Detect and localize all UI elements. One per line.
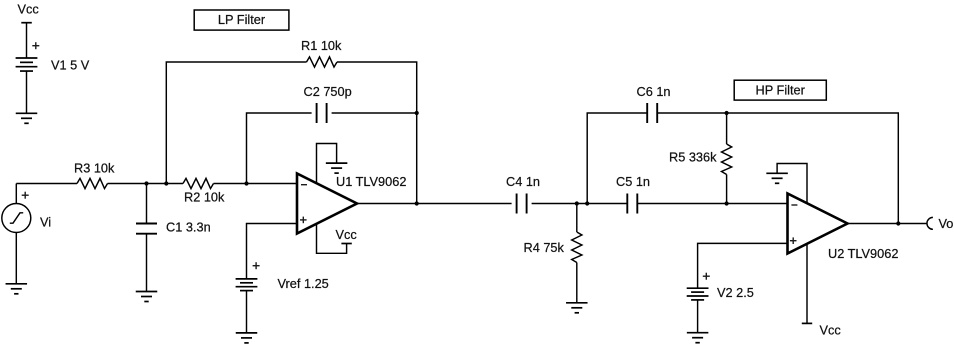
wire output node to C4 <box>417 203 512 205</box>
wire V1 to ground <box>26 71 28 113</box>
ground U2 V- pin <box>766 172 788 174</box>
svg-text:U2 TLV9062: U2 TLV9062 <box>828 246 898 261</box>
Vo terminal <box>927 217 933 229</box>
wire C1 to ground <box>146 234 148 292</box>
battery V1 plus sign <box>32 45 39 47</box>
wire R4 to ground <box>576 263 578 303</box>
wire U2 output <box>848 223 899 225</box>
svg-text:Vcc: Vcc <box>336 227 358 242</box>
svg-text:R5 336k: R5 336k <box>669 150 717 165</box>
svg-text:Vi: Vi <box>40 215 51 230</box>
wire riser to R1 <box>166 62 306 184</box>
wire R5 node to U2 inverting input <box>727 203 788 205</box>
capacitor C2 <box>316 103 318 123</box>
svg-text:C6 1n: C6 1n <box>637 84 671 99</box>
wire U1 V+ pin to Vcc <box>317 224 347 254</box>
node feedback junction <box>164 181 168 185</box>
node R4 junction <box>575 201 579 205</box>
wire node to R4 <box>576 204 578 233</box>
resistor R5 <box>722 144 732 175</box>
wire node to C2 <box>247 113 312 184</box>
Vi plus sign <box>22 194 29 196</box>
wire Vi to node A <box>15 184 17 204</box>
wire node to R5 <box>726 113 728 144</box>
svg-text:C4 1n: C4 1n <box>506 174 540 189</box>
LP Filter box <box>194 10 289 30</box>
node R5 bottom junction <box>725 201 729 205</box>
op-amp U2 <box>788 194 848 254</box>
wire U1 output <box>357 203 417 205</box>
battery Vref <box>236 278 258 280</box>
Vcc power terminal U1 <box>341 243 351 245</box>
svg-text:R4 75k: R4 75k <box>524 240 565 255</box>
resistor R4 <box>572 232 582 263</box>
wire R2 to U1 inverting input <box>214 183 298 185</box>
wire output to Vo terminal <box>898 223 927 225</box>
wire Vref to ground <box>246 291 248 333</box>
node R5 top junction <box>725 111 729 115</box>
wire riser to C6 <box>587 113 647 204</box>
node C2 junction <box>244 181 248 185</box>
ground Vi <box>6 283 28 285</box>
wire Vcc to V1 <box>26 23 28 58</box>
svg-text:R2 10k: R2 10k <box>184 190 225 205</box>
capacitor C4 <box>516 194 518 214</box>
svg-text:V2 2.5: V2 2.5 <box>717 285 754 300</box>
wire U2 V+ pin to Vcc <box>806 244 808 324</box>
wire node to C5 <box>587 203 627 205</box>
node U2 output junction <box>896 221 900 225</box>
capacitor C6 <box>646 103 648 123</box>
wire node to C1 <box>146 184 148 224</box>
ground U1 V- pin <box>326 162 348 164</box>
ground V2 <box>687 332 709 334</box>
wire U2 noninverting input to V2 <box>698 243 788 288</box>
svg-text:Vref 1.25: Vref 1.25 <box>278 276 329 291</box>
op-amp U1 <box>297 174 357 234</box>
resistor R3 <box>77 178 108 188</box>
capacitor C5 <box>626 194 628 214</box>
ground Vref <box>236 332 258 334</box>
wire V2 to ground <box>697 300 699 333</box>
capacitor C1 <box>136 223 157 225</box>
svg-text:V1 5 V: V1 5 V <box>51 58 90 73</box>
wire R1 to output node <box>337 62 417 204</box>
HP Filter box <box>734 80 826 100</box>
battery V1 <box>16 57 38 59</box>
svg-text:R3 10k: R3 10k <box>74 161 115 176</box>
node U1 output junction <box>415 201 419 205</box>
wire C5 to R5 node <box>637 203 726 205</box>
V2 plus sign <box>703 275 710 277</box>
wire R3 to R2 <box>108 183 184 185</box>
svg-text:U1 TLV9062: U1 TLV9062 <box>336 174 406 189</box>
node R1-C2 junction <box>415 111 419 115</box>
Vcc power terminal V1 <box>21 22 32 24</box>
wire C4 to node <box>532 203 588 205</box>
resistor R1 <box>307 57 338 67</box>
wire U2 V- pin to ground <box>777 164 807 204</box>
resistor R2 <box>183 178 214 188</box>
ground R4 <box>566 302 588 304</box>
ground V1 <box>16 112 38 114</box>
svg-text:Vo: Vo <box>939 216 954 231</box>
wire R5 to node <box>726 175 728 204</box>
wire Vi to ground <box>15 233 17 284</box>
wire C2 to output node <box>332 112 417 114</box>
source Vi <box>2 204 31 233</box>
node C6 junction <box>585 201 589 205</box>
wire Vi corner to R3 <box>16 183 77 185</box>
ground C1 <box>136 291 158 293</box>
svg-text:C5 1n: C5 1n <box>616 174 650 189</box>
wire C6 to U2 output <box>657 113 898 224</box>
svg-text:C2 750p: C2 750p <box>304 84 352 99</box>
wire U1 noninverting input to Vref <box>247 224 298 279</box>
Vcc power terminal U2 <box>802 322 812 324</box>
svg-text:R1 10k: R1 10k <box>301 38 342 53</box>
svg-text:C1 3.3n: C1 3.3n <box>166 220 211 235</box>
node C1 junction <box>144 181 148 185</box>
battery V2 <box>687 287 709 289</box>
svg-text:Vcc: Vcc <box>18 2 40 17</box>
Vref plus sign <box>253 265 260 267</box>
svg-text:LP Filter: LP Filter <box>218 12 266 27</box>
svg-text:Vcc: Vcc <box>820 323 842 338</box>
wire U1 V- pin to ground <box>317 144 337 184</box>
svg-text:HP Filter: HP Filter <box>756 83 806 98</box>
